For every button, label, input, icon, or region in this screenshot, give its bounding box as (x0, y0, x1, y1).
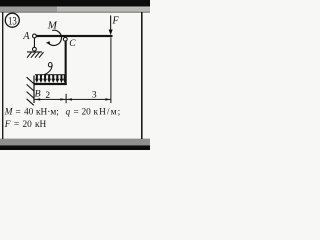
dim arrow right at F end (105, 98, 110, 100)
ground hatch 3 (35, 52, 40, 58)
dim arrow right of 2 (60, 98, 65, 100)
dim arrow left at wall (35, 98, 40, 100)
bottom black scan strip (0, 145, 150, 150)
svg-text:C: C (69, 39, 76, 49)
load arrow 1 (35, 75, 39, 83)
bottom gray band (0, 139, 150, 146)
pin A circle (33, 34, 37, 38)
top gray band left (0, 7, 57, 13)
ground line at A (27, 51, 42, 52)
moment arrowhead (46, 41, 51, 45)
svg-text:F=20кН: F=20кН (4, 120, 47, 130)
dim arrow left of 3 (67, 98, 72, 100)
moment arc M (49, 30, 62, 45)
page background (0, 0, 150, 150)
distributed load top line (35, 74, 66, 75)
wall hatch 1 (27, 77, 34, 84)
svg-text:13: 13 (8, 13, 17, 27)
dimension tick at member (66, 94, 67, 103)
dimension line (34, 99, 111, 100)
link rod below A (34, 38, 35, 47)
box left border (2, 12, 3, 139)
box right border (141, 12, 143, 139)
svg-text:M: M (47, 19, 58, 31)
load arrow 6 (55, 75, 59, 83)
force F arrowhead (109, 30, 113, 36)
top gray band right (57, 7, 150, 13)
right extension line (110, 38, 111, 104)
top black scan strip (0, 0, 150, 7)
ground hatch 2 (31, 52, 36, 58)
load arrow 2 (39, 75, 43, 83)
ground hatch 4 (39, 52, 44, 58)
wall hatch 4 (27, 99, 34, 106)
svg-text:2: 2 (45, 91, 50, 101)
force F line (110, 16, 111, 31)
light seam over right gray band (57, 6, 150, 9)
problem number circle 13 (5, 13, 19, 27)
svg-text:B: B (35, 89, 41, 100)
load arrow 5 (51, 75, 55, 83)
svg-text:3: 3 (92, 91, 97, 101)
load arrow 8 (63, 75, 66, 83)
label q loop (48, 62, 52, 66)
vertical member C-B (65, 41, 67, 85)
pin C circle (63, 37, 67, 41)
bottom beam at B (34, 83, 67, 85)
svg-text:F: F (112, 16, 120, 27)
load arrow 7 (60, 75, 64, 83)
load arrow 4 (47, 75, 51, 83)
svg-text:A: A (22, 31, 30, 42)
wall face line at B (33, 76, 34, 104)
load arrow 3 (43, 75, 47, 83)
wall hatch 2 (27, 84, 34, 91)
top beam A-C-end (36, 35, 112, 37)
top box edge line (0, 12, 150, 13)
q swash tail leader (45, 64, 52, 75)
ground hatch 1 (27, 52, 32, 58)
wall hatch 3 (27, 92, 34, 99)
lower pin circle of link (33, 47, 37, 51)
